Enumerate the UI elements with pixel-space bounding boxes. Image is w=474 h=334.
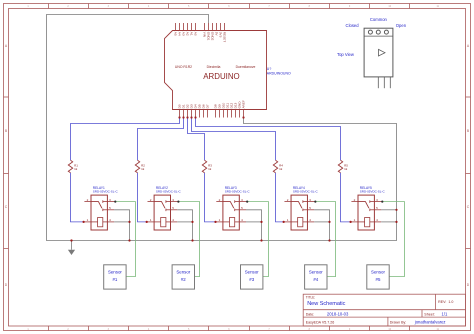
svg-text:A0: A0 <box>193 32 197 36</box>
svg-text:3V3: 3V3 <box>218 32 222 38</box>
svg-text:1k: 1k <box>279 167 283 171</box>
svg-text:U?: U? <box>267 67 272 71</box>
svg-text:ARDUINOUNO: ARDUINOUNO <box>267 72 291 76</box>
svg-text:SRD-05VDC-SL-C: SRD-05VDC-SL-C <box>93 190 119 194</box>
svg-text:EasyEDA V5.7.26: EasyEDA V5.7.26 <box>306 320 335 324</box>
svg-text:Open: Open <box>396 23 407 28</box>
svg-text:2018-10-03: 2018-10-03 <box>327 311 349 316</box>
svg-text:#4: #4 <box>313 277 318 282</box>
svg-text:Drawn By:: Drawn By: <box>390 320 407 324</box>
svg-text:GND2: GND2 <box>210 32 214 41</box>
svg-text:Common: Common <box>370 17 388 22</box>
svg-text:#3: #3 <box>249 277 254 282</box>
svg-text:Date:: Date: <box>306 312 315 316</box>
svg-text:Duemilanove: Duemilanove <box>236 65 256 69</box>
svg-text:Diecimila: Diecimila <box>207 65 221 69</box>
svg-text:Sensor: Sensor <box>309 270 323 275</box>
svg-text:UNO R1R2: UNO R1R2 <box>175 65 192 69</box>
svg-text:#1: #1 <box>112 277 117 282</box>
svg-text:SRD-05VDC-SL-C: SRD-05VDC-SL-C <box>156 190 182 194</box>
svg-text:AREF: AREF <box>242 100 246 108</box>
svg-text:A4: A4 <box>177 32 181 36</box>
svg-text:1k: 1k <box>208 167 212 171</box>
svg-text:A2: A2 <box>185 32 189 36</box>
svg-text:1k: 1k <box>74 167 78 171</box>
svg-text:A1: A1 <box>189 32 193 36</box>
svg-text:GND1: GND1 <box>206 32 210 41</box>
svg-text:Sheet:: Sheet: <box>424 312 434 316</box>
svg-text:jonathantalvarez: jonathantalvarez <box>414 319 446 324</box>
svg-text:Sensor: Sensor <box>371 270 385 275</box>
svg-text:REV: 1.0: REV: 1.0 <box>438 300 453 304</box>
svg-text:Sensor: Sensor <box>176 270 190 275</box>
svg-text:Closed: Closed <box>346 23 360 28</box>
svg-text:SRD-05VDC-SL-C: SRD-05VDC-SL-C <box>360 190 386 194</box>
svg-text:Top View: Top View <box>337 52 355 57</box>
svg-text:A3: A3 <box>181 32 185 36</box>
svg-text:SRD-05VDC-SL-C: SRD-05VDC-SL-C <box>225 190 251 194</box>
svg-text:ARDUINO: ARDUINO <box>203 72 239 81</box>
svg-text:VIN: VIN <box>202 32 206 37</box>
svg-text:1k: 1k <box>344 167 348 171</box>
svg-text:RESET: RESET <box>222 32 226 42</box>
svg-text:Sensor: Sensor <box>245 270 259 275</box>
svg-text:New Schematic: New Schematic <box>307 301 345 307</box>
svg-text:TITLE:: TITLE: <box>306 295 316 299</box>
svg-text:1/1: 1/1 <box>442 311 448 316</box>
svg-text:#2: #2 <box>181 277 186 282</box>
svg-text:#5: #5 <box>376 277 381 282</box>
svg-text:SRD-05VDC-SL-C: SRD-05VDC-SL-C <box>293 190 319 194</box>
svg-text:A5: A5 <box>173 32 177 36</box>
svg-text:D7: D7 <box>206 104 210 108</box>
svg-text:Sensor: Sensor <box>108 270 122 275</box>
svg-text:1k: 1k <box>141 167 145 171</box>
